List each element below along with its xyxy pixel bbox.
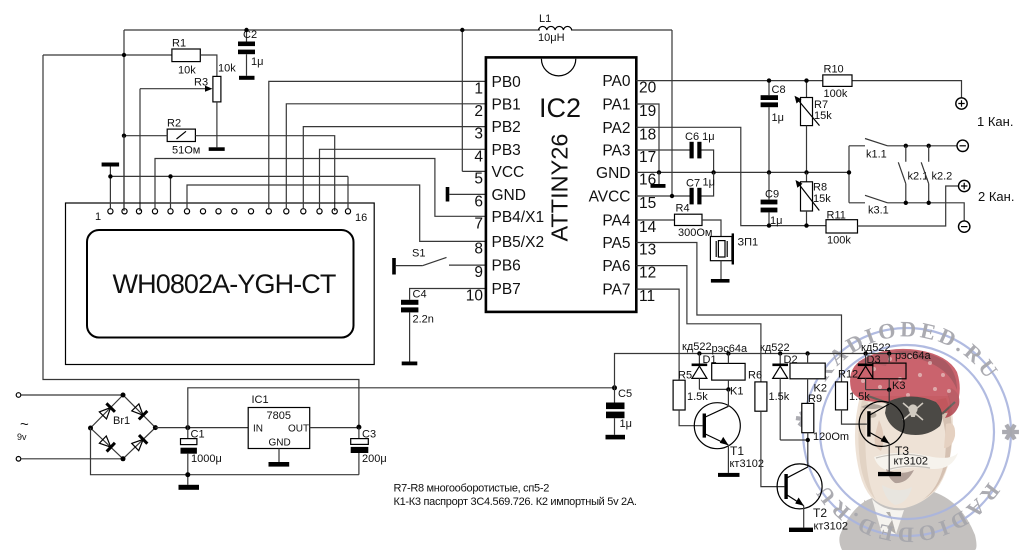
svg-text:R1: R1 bbox=[172, 38, 186, 50]
wire LCD pin12 to IC pin2 bbox=[286, 104, 486, 209]
svg-text:9v: 9v bbox=[17, 432, 27, 442]
switch block bracket bbox=[849, 146, 865, 203]
svg-text:IC1: IC1 bbox=[252, 394, 269, 406]
node k3.1/k2.1 bbox=[904, 201, 908, 205]
switch S1 bbox=[392, 248, 486, 275]
svg-text:L1: L1 bbox=[539, 13, 551, 25]
potentiometer R3 bbox=[213, 76, 221, 102]
diode D3 bbox=[858, 354, 881, 390]
svg-text:D3: D3 bbox=[867, 354, 881, 366]
svg-text:GND: GND bbox=[492, 187, 526, 204]
svg-text:120Om: 120Om bbox=[813, 431, 849, 443]
node C3 top bbox=[356, 425, 361, 430]
trimmer R7 bbox=[795, 81, 833, 173]
node D3 top bbox=[863, 351, 867, 355]
svg-text:C4: C4 bbox=[413, 289, 427, 301]
wire PA2 pin18 to feedback bus bbox=[636, 127, 826, 225]
node C1 top bbox=[185, 425, 190, 430]
svg-text:R11: R11 bbox=[827, 210, 846, 222]
node K3 bottom bbox=[887, 388, 891, 392]
node k3.1/k2.2 bbox=[927, 201, 931, 205]
diode D2 bbox=[772, 354, 797, 441]
wire LCD pin13 to IC pin3 bbox=[303, 127, 486, 209]
ground bar at pin16 bbox=[658, 172, 660, 184]
svg-text:11: 11 bbox=[639, 288, 655, 305]
svg-text:PB2: PB2 bbox=[492, 119, 521, 136]
ground below IC1 bbox=[269, 462, 290, 467]
capacitor C7 bbox=[686, 177, 715, 205]
node K1 bottom bbox=[726, 387, 730, 391]
svg-text:R7-R8 многооборотистые, сп5-2: R7-R8 многооборотистые, сп5-2 bbox=[394, 483, 550, 495]
svg-text:PA7: PA7 bbox=[602, 282, 630, 299]
svg-text:2: 2 bbox=[474, 103, 483, 120]
node VCC rail junction bbox=[460, 28, 464, 32]
wire R2 right to LCD pin15 bbox=[195, 136, 334, 211]
pirate face base bbox=[855, 396, 953, 509]
svg-text:k3.1: k3.1 bbox=[868, 205, 889, 217]
LCD display window bbox=[87, 230, 354, 338]
svg-text:PA1: PA1 bbox=[602, 97, 630, 114]
svg-text:кд522: кд522 bbox=[760, 342, 790, 354]
svg-text:PA0: PA0 bbox=[602, 73, 631, 90]
svg-text:рэс64а: рэс64а bbox=[895, 350, 931, 362]
svg-text:R10: R10 bbox=[824, 64, 844, 76]
svg-text:1μ: 1μ bbox=[620, 418, 632, 430]
svg-text:S1: S1 bbox=[412, 248, 425, 260]
resistor R9 bbox=[802, 393, 849, 443]
IC2 body bbox=[486, 57, 636, 312]
svg-text:кт3102: кт3102 bbox=[814, 521, 848, 533]
svg-text:R12: R12 bbox=[838, 369, 858, 381]
wire bridge minus to 0V rail bbox=[91, 428, 359, 475]
svg-text:R2: R2 bbox=[167, 118, 181, 130]
ground below T2 bbox=[789, 528, 813, 532]
wire IC pin5 VCC stub bbox=[462, 170, 486, 172]
svg-text:C6 1μ: C6 1μ bbox=[685, 131, 715, 143]
node C6/C7 on GND rail bbox=[711, 170, 715, 174]
node C1 on 0V rail bbox=[185, 472, 190, 477]
wire PA6 pin12 to R6 bbox=[636, 266, 761, 382]
wire LCD gnd bus y=176.4 pins 1,5,16 bbox=[110, 167, 348, 209]
svg-text:PB3: PB3 bbox=[492, 142, 521, 159]
svg-text:12: 12 bbox=[639, 265, 656, 282]
ground bar above LCD pin1 bbox=[102, 163, 120, 167]
wire R5 to T1 base bbox=[679, 410, 703, 426]
wire D2 anode join bbox=[780, 439, 808, 441]
svg-text:IC2: IC2 bbox=[539, 93, 581, 123]
node pin5 gnd bbox=[168, 174, 172, 178]
relay contact k3.1 bbox=[865, 195, 964, 221]
ground symbol at IC pin6 bbox=[446, 187, 450, 202]
transistor T2 bbox=[777, 464, 848, 533]
svg-text:5: 5 bbox=[474, 170, 483, 187]
capacitor C8 bbox=[761, 81, 786, 173]
svg-text:R6: R6 bbox=[748, 370, 762, 382]
diode D1 bbox=[692, 354, 717, 390]
resistor R2 bbox=[167, 129, 195, 141]
wire R11 to channel2 plus bbox=[858, 186, 959, 226]
relay contact k2.2 bbox=[921, 146, 952, 203]
svg-text:C5: C5 bbox=[618, 388, 632, 400]
node k1.1/k2.2 bbox=[927, 144, 931, 148]
neck collar bbox=[864, 500, 906, 520]
stamp inner circle bbox=[820, 345, 994, 519]
resistor R5 bbox=[673, 370, 708, 411]
mustache bbox=[874, 453, 958, 471]
node D1 top bbox=[697, 351, 701, 355]
svg-text:OUT: OUT bbox=[288, 424, 309, 435]
wire R4 to buzzer bbox=[702, 220, 721, 237]
terminal ch2 plus bbox=[959, 180, 970, 191]
regulator IC1 7805 bbox=[248, 408, 310, 449]
svg-text:8: 8 bbox=[474, 240, 483, 257]
svg-text:ЗП1: ЗП1 bbox=[738, 237, 759, 249]
svg-text:C3: C3 bbox=[362, 429, 376, 441]
svg-text:10μH: 10μH bbox=[538, 32, 565, 44]
svg-text:1000μ: 1000μ bbox=[191, 453, 222, 465]
bridge diode top-left bbox=[99, 403, 115, 419]
svg-text:1μ: 1μ bbox=[772, 112, 784, 124]
svg-text:PB5/X2: PB5/X2 bbox=[492, 234, 545, 251]
node T2 collector bbox=[806, 438, 810, 442]
capacitor C3 electrolytic bbox=[351, 428, 387, 475]
svg-text:7805: 7805 bbox=[267, 410, 291, 422]
wire +5V distribution: y=55 and left loop to regulator bbox=[43, 30, 359, 427]
svg-text:К1-К3 паспрорт 3С4.569.726. К2: К1-К3 паспрорт 3С4.569.726. К2 импортный… bbox=[394, 496, 637, 508]
node bridge left bbox=[88, 426, 93, 431]
ground below ZP1 bbox=[711, 279, 730, 283]
node AVCC feed bbox=[670, 194, 674, 198]
wire R2 left to +5 vertical bbox=[124, 135, 167, 137]
wire bridge plus to IC1 IN bbox=[155, 427, 248, 429]
svg-text:Br1: Br1 bbox=[113, 415, 130, 427]
svg-text:1 Кан.: 1 Кан. bbox=[977, 114, 1013, 129]
node K3 top bbox=[887, 351, 891, 355]
node k1.1/k2.1 bbox=[904, 144, 908, 148]
svg-text:PB6: PB6 bbox=[492, 258, 521, 275]
relay coil K1 bbox=[712, 354, 745, 398]
wire PA7 pin11 to R5 bbox=[636, 289, 679, 380]
wire D3 anode to K3 bottom bbox=[866, 389, 890, 391]
wire AC top to bridge bbox=[21, 394, 123, 396]
relay contact k2.1 bbox=[898, 146, 928, 203]
svg-text:15: 15 bbox=[639, 195, 656, 212]
relay coil K2 bbox=[790, 354, 827, 404]
svg-text:10k: 10k bbox=[218, 63, 236, 75]
wire IC1 GND pin to ground bbox=[278, 449, 280, 463]
svg-text:4: 4 bbox=[474, 148, 483, 165]
capacitor C4 bbox=[401, 289, 434, 362]
node R8 bottom bbox=[804, 223, 808, 227]
terminal ch1 plus bbox=[956, 98, 967, 109]
relay coil K3 bbox=[873, 354, 906, 393]
nose bbox=[875, 420, 884, 451]
ground below R3 bbox=[209, 147, 225, 151]
svg-text:1.5k: 1.5k bbox=[849, 391, 870, 403]
svg-text:16: 16 bbox=[355, 212, 367, 224]
left eye and brow bbox=[861, 404, 884, 409]
svg-text:GND: GND bbox=[596, 165, 630, 182]
svg-text:18: 18 bbox=[639, 126, 656, 143]
node K1 top bbox=[726, 351, 730, 355]
eye patch bbox=[885, 397, 942, 436]
svg-text:15k: 15k bbox=[813, 193, 831, 205]
svg-text:PB0: PB0 bbox=[492, 74, 522, 91]
svg-text:19: 19 bbox=[639, 103, 656, 120]
resistor R11 bbox=[826, 220, 858, 233]
svg-text:100k: 100k bbox=[827, 235, 851, 247]
wire +5V top rail y=30 bbox=[124, 29, 540, 31]
svg-text:кт3102: кт3102 bbox=[730, 458, 764, 470]
svg-text:K3: K3 bbox=[892, 380, 905, 392]
node C9 bottom bbox=[767, 223, 771, 227]
svg-text:6: 6 bbox=[474, 193, 483, 210]
IC2 left pin numbers bbox=[466, 80, 484, 304]
svg-text:1: 1 bbox=[95, 211, 101, 223]
node bridge right bbox=[153, 425, 158, 430]
face shading right side bbox=[922, 398, 952, 500]
node bracket on GND rail bbox=[847, 170, 851, 174]
capacitor C1 electrolytic bbox=[181, 428, 222, 485]
svg-text:C7: C7 bbox=[686, 178, 700, 190]
wire IC pin6 to ground bbox=[449, 193, 486, 195]
svg-text:GND: GND bbox=[269, 438, 291, 449]
jacket shoulders bbox=[839, 492, 976, 550]
svg-text:PB4/X1: PB4/X1 bbox=[492, 209, 545, 226]
WATERMARK bbox=[791, 316, 1022, 550]
ground below C2 bbox=[239, 76, 255, 80]
svg-text:R9: R9 bbox=[808, 393, 822, 405]
wire GND rail y=172.4 bbox=[636, 171, 849, 173]
node K2 top bbox=[805, 351, 809, 355]
IC2 right pin numbers bbox=[639, 80, 657, 306]
svg-text:PB1: PB1 bbox=[492, 96, 521, 113]
node C5 junction bbox=[612, 385, 617, 390]
svg-text:51Ом: 51Ом bbox=[172, 145, 200, 157]
svg-text:20: 20 bbox=[639, 80, 657, 97]
AC input terminal top bbox=[16, 393, 21, 398]
svg-text:R4: R4 bbox=[676, 203, 690, 215]
inductor L1 bbox=[539, 26, 572, 30]
node +5V at x=124 y=55 bbox=[122, 53, 126, 57]
svg-text:C9: C9 bbox=[765, 189, 779, 201]
terminal ch2 minus bbox=[959, 221, 970, 232]
svg-text:17: 17 bbox=[639, 149, 656, 166]
svg-text:10: 10 bbox=[466, 288, 484, 305]
LCD module WH0802A-YGH-CT outer bbox=[66, 203, 375, 365]
wire R12 to T3 base bbox=[842, 410, 867, 424]
svg-text:200μ: 200μ bbox=[362, 453, 387, 465]
wire AC bottom to bridge bbox=[21, 458, 123, 460]
svg-text:кт3102: кт3102 bbox=[894, 456, 928, 468]
wire VCC vertical x=462.3 bbox=[461, 30, 463, 171]
node bridge bottom bbox=[121, 456, 126, 461]
svg-text:AVCC: AVCC bbox=[589, 189, 631, 206]
svg-text:PA6: PA6 bbox=[602, 258, 630, 275]
resistor R12 bbox=[836, 369, 871, 410]
svg-text:PA5: PA5 bbox=[602, 235, 630, 252]
AC input terminal bottom bbox=[16, 457, 21, 462]
svg-text:2 Кан.: 2 Кан. bbox=[978, 189, 1014, 204]
piezo ZP1 bbox=[710, 233, 758, 279]
node C2 on +5 rail bbox=[244, 28, 248, 32]
wire PA4 pin14 to R4 bbox=[636, 219, 674, 221]
svg-text:T1: T1 bbox=[730, 444, 744, 458]
bandana red bbox=[850, 349, 960, 413]
LCD pin row bbox=[108, 209, 351, 214]
wire R6 to T2 base bbox=[761, 411, 785, 486]
svg-text:✱: ✱ bbox=[998, 423, 1023, 441]
wire R3 bottom to ground bbox=[216, 102, 218, 147]
svg-text:PA4: PA4 bbox=[602, 212, 631, 229]
IC2 notch bbox=[541, 59, 575, 76]
node C8 top bbox=[767, 78, 771, 82]
wire R1 right to R3 top bbox=[200, 55, 217, 76]
svg-text:10k: 10k bbox=[178, 65, 196, 77]
node R2 left bbox=[122, 134, 126, 138]
transistor T3 bbox=[859, 390, 928, 472]
node pin1 gnd bbox=[108, 174, 112, 178]
chin beard bbox=[882, 485, 912, 505]
svg-text:PA3: PA3 bbox=[602, 143, 630, 160]
svg-text:9: 9 bbox=[474, 264, 483, 281]
bandana dots bbox=[861, 355, 951, 397]
svg-text:1μ: 1μ bbox=[770, 215, 782, 227]
node bridge top bbox=[121, 393, 126, 398]
mouth bbox=[886, 469, 914, 483]
ground below C1 bbox=[179, 485, 200, 490]
svg-text:1.5k: 1.5k bbox=[687, 391, 708, 403]
skull on patch bbox=[903, 403, 923, 420]
capacitor C9 bbox=[761, 172, 783, 227]
wire +5V rail after L1 bbox=[571, 29, 672, 31]
wire LCD pin11 to IC pin1 bbox=[269, 81, 486, 208]
trimmer R8 bbox=[796, 172, 832, 225]
capacitor C6 bbox=[685, 131, 715, 158]
node R7 top bbox=[804, 78, 808, 82]
IC2 left pin labels bbox=[492, 74, 545, 298]
wire IC pin10 to C4 bbox=[410, 289, 486, 300]
ear right bbox=[944, 423, 955, 448]
wire PA5 pin13 to R12 bbox=[636, 243, 841, 382]
wire AVCC pin15 through C7 bbox=[636, 172, 713, 196]
wire R9 to T2 collector bbox=[807, 433, 809, 467]
wire LCD pin2 VDD stub bbox=[123, 136, 125, 209]
bridge diode bottom-left bbox=[99, 435, 115, 451]
wire R3 wiper arm bbox=[140, 88, 208, 90]
svg-text:ATTINY26: ATTINY26 bbox=[547, 134, 573, 242]
wire LCD pin4 to IC pin7 (RS) bbox=[155, 159, 486, 217]
ground below C4 bbox=[402, 362, 418, 366]
bridge diode top-right bbox=[131, 403, 147, 419]
svg-text:R5: R5 bbox=[678, 370, 692, 382]
relay contact k1.1 bbox=[865, 139, 957, 161]
svg-text:T2: T2 bbox=[813, 506, 827, 520]
svg-text:R8: R8 bbox=[813, 182, 827, 194]
IC2 right pin labels bbox=[589, 73, 631, 299]
wire AVCC feed vertical x=672 bbox=[671, 30, 673, 196]
capacitor C5 bbox=[606, 388, 632, 435]
svg-text:100k: 100k bbox=[824, 88, 848, 100]
svg-text:~: ~ bbox=[20, 416, 29, 433]
R3 wiper arrowhead bbox=[205, 86, 213, 92]
svg-text:300Ом: 300Ом bbox=[678, 227, 712, 239]
svg-text:2.2n: 2.2n bbox=[413, 314, 434, 326]
transistor T1 bbox=[694, 389, 764, 473]
node R7 bottom on GND rail bbox=[804, 170, 808, 174]
bridge diode bottom-right bbox=[131, 435, 147, 451]
node C8 bottom on GND rail bbox=[767, 170, 771, 174]
ground below T1 bbox=[718, 473, 740, 477]
wire PA1 pin19 to GND rail bbox=[636, 104, 659, 172]
wire LCD pin14 to IC pin4 bbox=[320, 149, 486, 208]
wire raw plus feed to C5 bbox=[188, 388, 615, 428]
svg-text:VCC: VCC bbox=[492, 164, 525, 181]
svg-text:C1: C1 bbox=[191, 429, 205, 441]
resistor R10 bbox=[823, 75, 852, 87]
svg-text:K1: K1 bbox=[730, 386, 743, 398]
svg-text:1μ: 1μ bbox=[251, 56, 263, 68]
svg-text:кд522: кд522 bbox=[682, 341, 712, 353]
svg-text:14: 14 bbox=[639, 219, 657, 236]
wire relay supply rail bbox=[615, 354, 907, 388]
stamp outer circle bbox=[803, 328, 1011, 536]
terminal ch1 minus bbox=[957, 140, 968, 151]
face shading left side bbox=[858, 400, 876, 500]
svg-text:IN: IN bbox=[253, 424, 263, 435]
wire PA0 pin20 to channel1 plus bbox=[636, 81, 961, 98]
ground below C5 bbox=[606, 435, 626, 440]
svg-text:13: 13 bbox=[639, 242, 656, 259]
wire PA3 pin17 through C6 bbox=[636, 150, 713, 172]
svg-text:15k: 15k bbox=[814, 110, 832, 122]
svg-text:PA2: PA2 bbox=[602, 120, 630, 137]
wire contrast wiper down to LCD pin3 bbox=[139, 89, 141, 211]
ground below T3 bbox=[878, 472, 901, 476]
resistor R6 bbox=[748, 370, 790, 412]
svg-text:WH0802A-YGH-CT: WH0802A-YGH-CT bbox=[113, 269, 336, 299]
svg-text:C8: C8 bbox=[772, 84, 786, 96]
wire IC1 OUT to C3 bbox=[310, 427, 359, 429]
svg-text:1: 1 bbox=[474, 80, 483, 97]
eye patch strap bbox=[868, 396, 955, 414]
node D2 top bbox=[778, 351, 782, 355]
bridge Br1 diamond bbox=[91, 395, 156, 459]
resistor R1 bbox=[172, 49, 200, 62]
wire D1 anode to K1 bottom bbox=[699, 388, 728, 390]
svg-text:PB7: PB7 bbox=[492, 281, 521, 298]
svg-text:7: 7 bbox=[474, 215, 483, 232]
svg-text:1.5k: 1.5k bbox=[769, 391, 790, 403]
svg-text:k1.1: k1.1 bbox=[866, 149, 887, 161]
svg-text:1μ: 1μ bbox=[703, 177, 715, 189]
svg-text:k2.2: k2.2 bbox=[932, 171, 953, 183]
svg-text:3: 3 bbox=[474, 126, 483, 143]
bandana fold shading bbox=[894, 350, 957, 390]
bandana tail bbox=[945, 388, 959, 418]
capacitor C2 bbox=[238, 29, 263, 76]
wire LCD pin6 to IC pin8 (E) bbox=[187, 185, 486, 241]
node GND pin16 bbox=[657, 170, 661, 174]
resistor R4 bbox=[675, 214, 703, 225]
